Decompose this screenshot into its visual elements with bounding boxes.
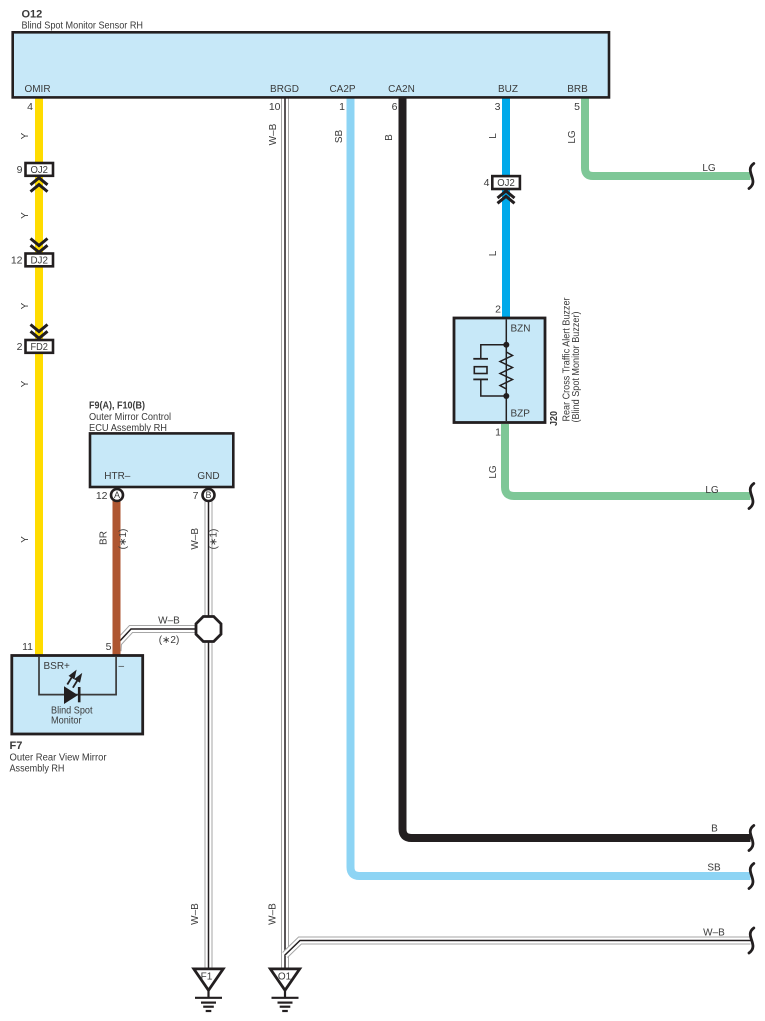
piezo bottom plate [473,378,488,380]
svg-text:BRGD: BRGD [270,84,299,95]
svg-text:BSR+: BSR+ [44,661,71,672]
svg-text:(∗1): (∗1) [118,529,129,550]
svg-text:A: A [114,490,120,500]
svg-text:BZP: BZP [511,409,531,420]
ground O1 stub and bars [272,991,299,1011]
svg-text:1: 1 [495,427,501,439]
connector OJ2 box [26,163,54,176]
wire W-B BRGD vertical to ground O1 [281,97,289,968]
svg-text:W–B: W–B [268,123,279,145]
svg-text:CA2P: CA2P [329,84,355,95]
pin circle B [203,489,215,501]
connector FD2 chevrons [31,325,48,339]
pin circle A [111,489,123,501]
svg-text:7: 7 [193,490,199,502]
LED arrows [67,672,81,688]
break squiggle B [749,826,754,851]
connector OJ2 buzzer chevrons [498,191,515,203]
svg-text:(∗2): (∗2) [159,635,180,646]
connector FD2 box [26,340,54,353]
svg-text:HTR–: HTR– [104,471,131,482]
svg-text:B: B [205,490,211,500]
break squiggle LG top [749,164,754,189]
svg-text:Y: Y [20,132,31,139]
J20 internal vertical wire [505,320,507,422]
svg-text:F1: F1 [201,972,213,983]
piezo top plate [473,358,488,360]
svg-text:BR: BR [99,531,110,545]
ground O1 triangle [270,969,299,990]
svg-text:1: 1 [339,101,345,113]
svg-text:Y: Y [20,212,31,219]
svg-text:F9(A), F10(B): F9(A), F10(B) [89,400,145,412]
svg-text:SB: SB [334,130,345,144]
wire W-B branch from O1 wire to right break [285,941,751,956]
svg-text:W–B: W–B [268,903,279,925]
box F9 F10 Outer Mirror Control ECU [90,433,233,487]
svg-text:BRB: BRB [567,84,588,95]
svg-text:Y: Y [20,302,31,309]
node dot bottom BZP [503,393,509,399]
svg-text:2: 2 [17,341,23,353]
ground F1 triangle [194,969,223,990]
svg-text:4: 4 [484,177,490,189]
resistor zigzag [500,352,513,389]
wire L BUZ vertical [502,97,510,319]
svg-text:B: B [711,824,718,835]
box O12 Blind Spot Monitor Sensor RH [13,32,609,97]
svg-text:12: 12 [96,490,108,502]
svg-text:B: B [384,134,395,141]
svg-text:ECU Assembly RH: ECU Assembly RH [89,423,167,434]
node dot top BZN [503,342,509,348]
svg-text:DJ2: DJ2 [30,255,48,266]
break squiggle LG mid [749,484,754,509]
break squiggle W-B [749,928,754,953]
svg-text:Blind Spot Monitor Sensor RH: Blind Spot Monitor Sensor RH [22,21,144,32]
piezo element rectangle [474,367,487,374]
svg-text:4: 4 [27,101,33,113]
svg-text:LG: LG [705,485,719,496]
wire W-B GND pin B vertical to ground F1 [205,500,213,968]
svg-text:OJ2: OJ2 [30,165,48,176]
svg-text:BUZ: BUZ [498,84,518,95]
svg-text:L: L [488,133,499,139]
ground F1 stub and bars [195,991,222,1011]
svg-text:(∗1): (∗1) [209,529,220,550]
wire SB CA2P to right break [351,97,751,876]
connector OJ2 buzzer box [492,176,520,189]
svg-text:LG: LG [488,465,499,479]
svg-text:W–B: W–B [703,928,725,939]
svg-text:11: 11 [22,641,33,653]
svg-text:J20: J20 [549,411,560,426]
svg-text:Y: Y [20,380,31,387]
svg-text:FD2: FD2 [30,342,48,353]
svg-text:LG: LG [567,130,578,144]
svg-text:L: L [488,250,499,256]
svg-text:Y: Y [20,536,31,543]
svg-text:CA2N: CA2N [388,84,415,95]
svg-text:F7: F7 [10,740,23,752]
wire BR from pin A to F7 pin 5 [113,500,121,657]
svg-text:9: 9 [17,164,23,176]
F7 internal circuit wire [39,657,116,695]
box J20 buzzer [454,318,545,423]
wire LG J20 pin1 to right break [505,424,751,496]
svg-text:W–B: W–B [190,903,201,925]
svg-text:2: 2 [495,304,501,316]
wire Y OMIR vertical [35,97,43,657]
svg-text:3: 3 [495,101,501,113]
svg-text:(Blind Spot Monitor Buzzer): (Blind Spot Monitor Buzzer) [571,312,582,423]
svg-text:LG: LG [702,163,716,174]
svg-text:12: 12 [11,255,23,267]
break squiggle SB [749,864,754,889]
svg-text:10: 10 [269,101,281,113]
wire B CA2N to right break [403,97,751,838]
svg-text:BZN: BZN [511,324,531,335]
junction octagon [196,617,221,642]
svg-text:SB: SB [707,863,721,874]
piezo branch wire [481,345,507,396]
svg-text:6: 6 [392,101,398,113]
svg-text:W–B: W–B [190,528,201,550]
svg-text:Monitor: Monitor [51,716,82,727]
svg-text:Outer Mirror Control: Outer Mirror Control [89,412,171,423]
svg-text:–: – [119,661,125,672]
connector DJ2 chevrons [31,239,48,253]
box F7 Outer Rear View Mirror [12,656,143,735]
svg-text:Outer Rear View Mirror: Outer Rear View Mirror [10,753,108,764]
wire LG BRB to right break [585,97,751,176]
connector DJ2 box [26,254,54,267]
svg-text:O12: O12 [22,9,43,21]
svg-text:O1: O1 [278,972,292,983]
svg-text:OJ2: OJ2 [497,178,515,189]
svg-text:5: 5 [106,641,112,653]
svg-text:OMIR: OMIR [24,84,50,95]
LED diode F7 [64,686,78,704]
wire W-B branch F7 pin5 to junction octagon [118,629,197,651]
svg-text:Assembly RH: Assembly RH [10,764,65,775]
connector OJ2 chevrons [31,178,48,192]
svg-text:GND: GND [197,471,219,482]
svg-text:W–B: W–B [158,616,180,627]
svg-text:5: 5 [574,101,580,113]
